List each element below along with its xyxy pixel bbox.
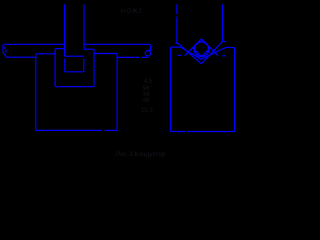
pipe right end rounded corner [148,44,151,50]
pipe bottom line left segment [6,56,36,58]
top label text [121,9,143,15]
pipe right end small circle [145,51,150,56]
bottom caption [116,152,166,159]
pipe left end cap hook [3,44,6,57]
small dash lower right of V [222,55,226,57]
side view box right edge [234,48,236,132]
pipe left end cap inner tick [5,47,6,53]
socket left wall [64,59,66,72]
V-groove outer line right 45deg [201,42,222,64]
dimension stack row 2 [143,86,150,92]
body box left view: top edge left portion [36,53,55,55]
side view box top edge left portion [171,46,181,48]
socket right wall [83,59,85,72]
dimension stack row 4 [143,98,150,104]
body box left view: left edge [35,54,37,131]
body box left view: top edge right portion [94,53,117,55]
socket bottom [65,71,84,73]
V-groove inner line right [201,48,226,60]
cup right wall [93,49,95,86]
pipe end face line [65,55,84,57]
vertical pipe right wall (front view) [83,4,85,49]
cup bottom edge [55,86,94,88]
cup top edge right segment [84,48,94,50]
side view box left edge [170,47,172,131]
small dash lower left of V [178,54,182,56]
side view clamp right vertical [221,4,223,41]
diamond lower-left edge [193,48,202,57]
body box left view: right edge [116,54,118,131]
diamond lower-right edge [201,48,210,57]
V-groove outer line left 45deg [178,43,201,64]
pipe bottom line right segment [118,56,149,58]
horizontal pipe top line right segment [84,43,149,45]
dimension stack row 5 [141,108,153,114]
pipe cross-section circle [194,42,209,57]
dimension stack row 1 [144,79,152,85]
clamp prism lambda arms over circle [185,39,219,56]
left tick under clamp vertical [175,42,178,44]
side view clamp left vertical [176,4,178,43]
horizontal pipe top line left segment [4,43,65,45]
cup top edge left segment [55,48,65,50]
side view box bottom edge [171,131,235,133]
dimension stack row 3 [143,92,150,98]
vertical pipe left wall (front view) [64,4,66,56]
right tick under clamp vertical [222,41,226,43]
side view box top edge right portion [226,47,235,49]
body box left view: bottom edge [36,129,117,131]
cup left wall [54,49,56,87]
V-groove inner line left [181,47,202,59]
